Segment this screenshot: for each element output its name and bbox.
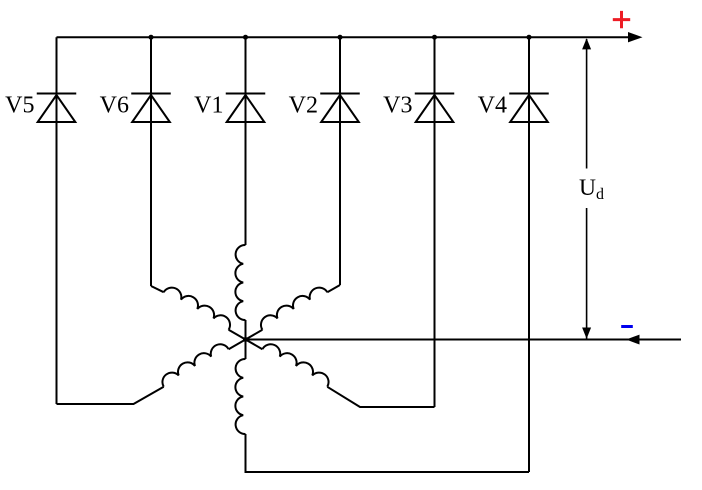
diode V6: [131, 94, 171, 123]
top positive bus: [57, 36, 631, 38]
arrowhead - input: [626, 335, 639, 345]
diode V1: [226, 94, 266, 123]
wire V4 vertical: [528, 37, 530, 472]
svg-text:V2: V2: [289, 93, 318, 119]
winding phase 1 (top, to V1): [235, 245, 245, 320]
svg-text:V1: V1: [194, 93, 223, 119]
diode V2: [320, 94, 360, 123]
Ud dimension line lower: [586, 208, 588, 339]
node dot V3: [432, 35, 437, 40]
arrowhead + output: [628, 32, 643, 42]
svg-text:V3: V3: [383, 93, 412, 119]
winding phase 2 (upper right, to V2): [261, 288, 327, 330]
wire phase2 center lead: [246, 330, 263, 340]
svg-text:V5: V5: [5, 93, 34, 119]
svg-text:V6: V6: [100, 93, 129, 119]
node dot V2: [338, 35, 343, 40]
winding phase 4 (bottom, to V4): [235, 359, 245, 434]
wire phase4 down + bottom bus: [246, 434, 530, 472]
plus sign: [613, 11, 630, 28]
wire V1 vertical: [245, 37, 247, 245]
wire V5 vertical: [56, 37, 58, 404]
wire V3 vertical: [434, 37, 436, 407]
node dot V6: [149, 35, 154, 40]
winding phase 6 (upper left, to V6): [164, 288, 230, 330]
wire phase5 to V5: [57, 387, 164, 404]
diode V3: [415, 94, 455, 123]
star center node: [243, 337, 248, 342]
wire phase5 center lead: [229, 340, 246, 350]
minus sign: [621, 325, 633, 328]
Ud arrow up: [582, 38, 591, 49]
wire phase6 center lead: [229, 330, 246, 340]
winding phase 3 (lower right, to V3): [262, 344, 328, 387]
svg-text:Ud: Ud: [579, 175, 604, 203]
wire phase3 center lead: [246, 340, 263, 350]
svg-text:V4: V4: [478, 93, 507, 119]
wire phase1 to center: [245, 320, 247, 340]
wire phase6 to V6 corner: [151, 286, 164, 292]
wire V6 vertical: [150, 37, 152, 286]
wire phase3 to V3: [327, 387, 434, 407]
winding phase 5 (lower left, to V5): [162, 344, 228, 387]
wire phase2 to V2 corner: [327, 285, 340, 292]
wire V2 vertical: [339, 37, 341, 285]
diode V5: [37, 94, 77, 123]
node dot V4: [527, 35, 532, 40]
Ud dimension line upper: [586, 39, 588, 169]
Ud arrow down: [582, 328, 591, 339]
wire phase4 center lead: [245, 340, 247, 360]
diode V4: [509, 94, 549, 123]
node dot V1: [243, 35, 248, 40]
negative bus: [246, 339, 682, 341]
